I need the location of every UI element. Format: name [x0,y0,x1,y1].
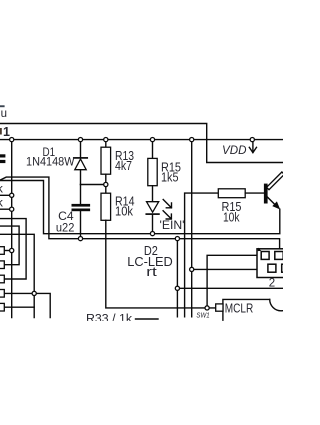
wire stub resistor lead y=195.3 [0,194,12,196]
resistor R13 [105,140,107,148]
label R14 10k [115,195,135,219]
svg-text:4k7: 4k7 [115,159,132,173]
VDD supply arrow [252,142,254,153]
wire vertical x=191.7 from VDD rail down [191,140,193,317]
svg-text:2: 2 [269,277,275,289]
pin square 4 [282,264,289,272]
connector K (programming header) box [257,249,288,278]
label R15 10k [222,200,242,224]
svg-text:u22: u22 [56,220,75,234]
wire pin D lead across to x=50.2 down [4,293,50,317]
wire L2 to pin B [0,226,19,265]
svg-text:10k: 10k [115,205,134,219]
wire segment after R33 label [136,318,159,320]
emitter with arrow [268,197,276,205]
wire pin A lead [4,250,11,252]
collector double line [267,172,285,190]
wire B from left edge to bus1 and transistor emitter [0,181,280,234]
resistor R14 [101,193,111,220]
wire vertical x=207 connector pin1 to MCLR node [207,255,261,308]
LED D2 symbol [147,202,159,213]
node label IC1 fragment (bold 1) [0,125,10,139]
svg-text:'EIN': 'EIN' [160,218,185,232]
bottom crop mask [0,321,283,425]
label D2 LC-LED rt [127,244,173,279]
resistor R15 (1k5) [152,140,154,159]
wire vertical x=177.4 from GND bus down [176,239,178,317]
IC box with MCLR pin [223,299,270,322]
wire R14 down to MCLR line [106,220,216,308]
pin square 1 [261,252,269,260]
wire A fork from left edge to GND bus2 and connector pin2 [0,177,280,252]
svg-text:1k5: 1k5 [161,170,179,184]
IC notch [270,299,293,310]
connector pin squares (left edge, cut) [0,247,4,311]
pin1 mark [258,248,262,252]
svg-text:10k: 10k [223,210,240,224]
svg-text:rt: rt [146,265,157,279]
pin square 2 [275,252,283,260]
wire D1 to R13/R14 junction [81,184,106,186]
diode D1 [80,140,82,158]
MCLR pin square [216,304,223,311]
wire VDD rail y=139.6 [0,139,283,141]
label D1 [26,145,75,168]
svg-text:SW1: SW1 [196,310,209,319]
wire L1 to pin C [0,219,26,279]
svg-text:MCLR: MCLR [225,301,254,316]
resistor R15 (10k, base) [218,189,245,198]
wire pin E lead [4,306,34,308]
svg-text:1N4148W: 1N4148W [26,154,75,168]
capacitor (edge, cut) plates [0,154,5,163]
node label Tu (blue text, cut at left edge) [0,105,7,120]
wire from node to right edge [177,287,283,289]
LED arrows [163,200,171,208]
svg-text:VDD: VDD [222,143,247,157]
svg-text:u: u [1,108,7,120]
label C4 u22 [56,209,75,234]
wire vertical x=184.6 base feed to R15 10k [185,193,219,317]
pin square 3 [268,264,276,272]
svg-text:1: 1 [3,125,10,139]
wire main left bus vertical x=11.7 [11,140,13,318]
transistor Q1 [264,184,268,204]
capacitor C4 [80,185,82,204]
wire top horizontal line y=123.5 with VDD frame corner [0,124,283,163]
label R15 1k5 [161,160,181,184]
wire from node to connector pin3 [192,268,268,270]
wire stub resistor lead y=209.2 [0,208,12,210]
wire L3 down vertical x=33.9 [0,234,34,317]
junction nodes (open circles) [10,138,255,311]
label R13 4k7 [115,149,134,173]
